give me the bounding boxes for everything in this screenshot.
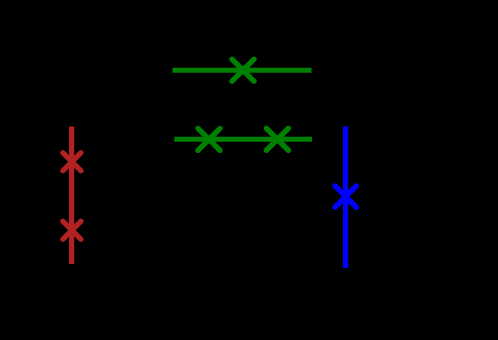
green x marker 1 on bar 2 [198,128,220,150]
green horizontal error bar 2 [174,137,312,142]
blue x marker [335,186,356,207]
red x marker 1 [63,153,81,171]
green x marker 2 on bar 2 [266,128,288,150]
blue vertical error bar [343,127,348,269]
green horizontal error bar 1 [173,68,312,73]
green x marker on bar 1 [232,59,254,81]
red vertical error bar [69,127,74,265]
red x marker 2 [63,221,81,239]
